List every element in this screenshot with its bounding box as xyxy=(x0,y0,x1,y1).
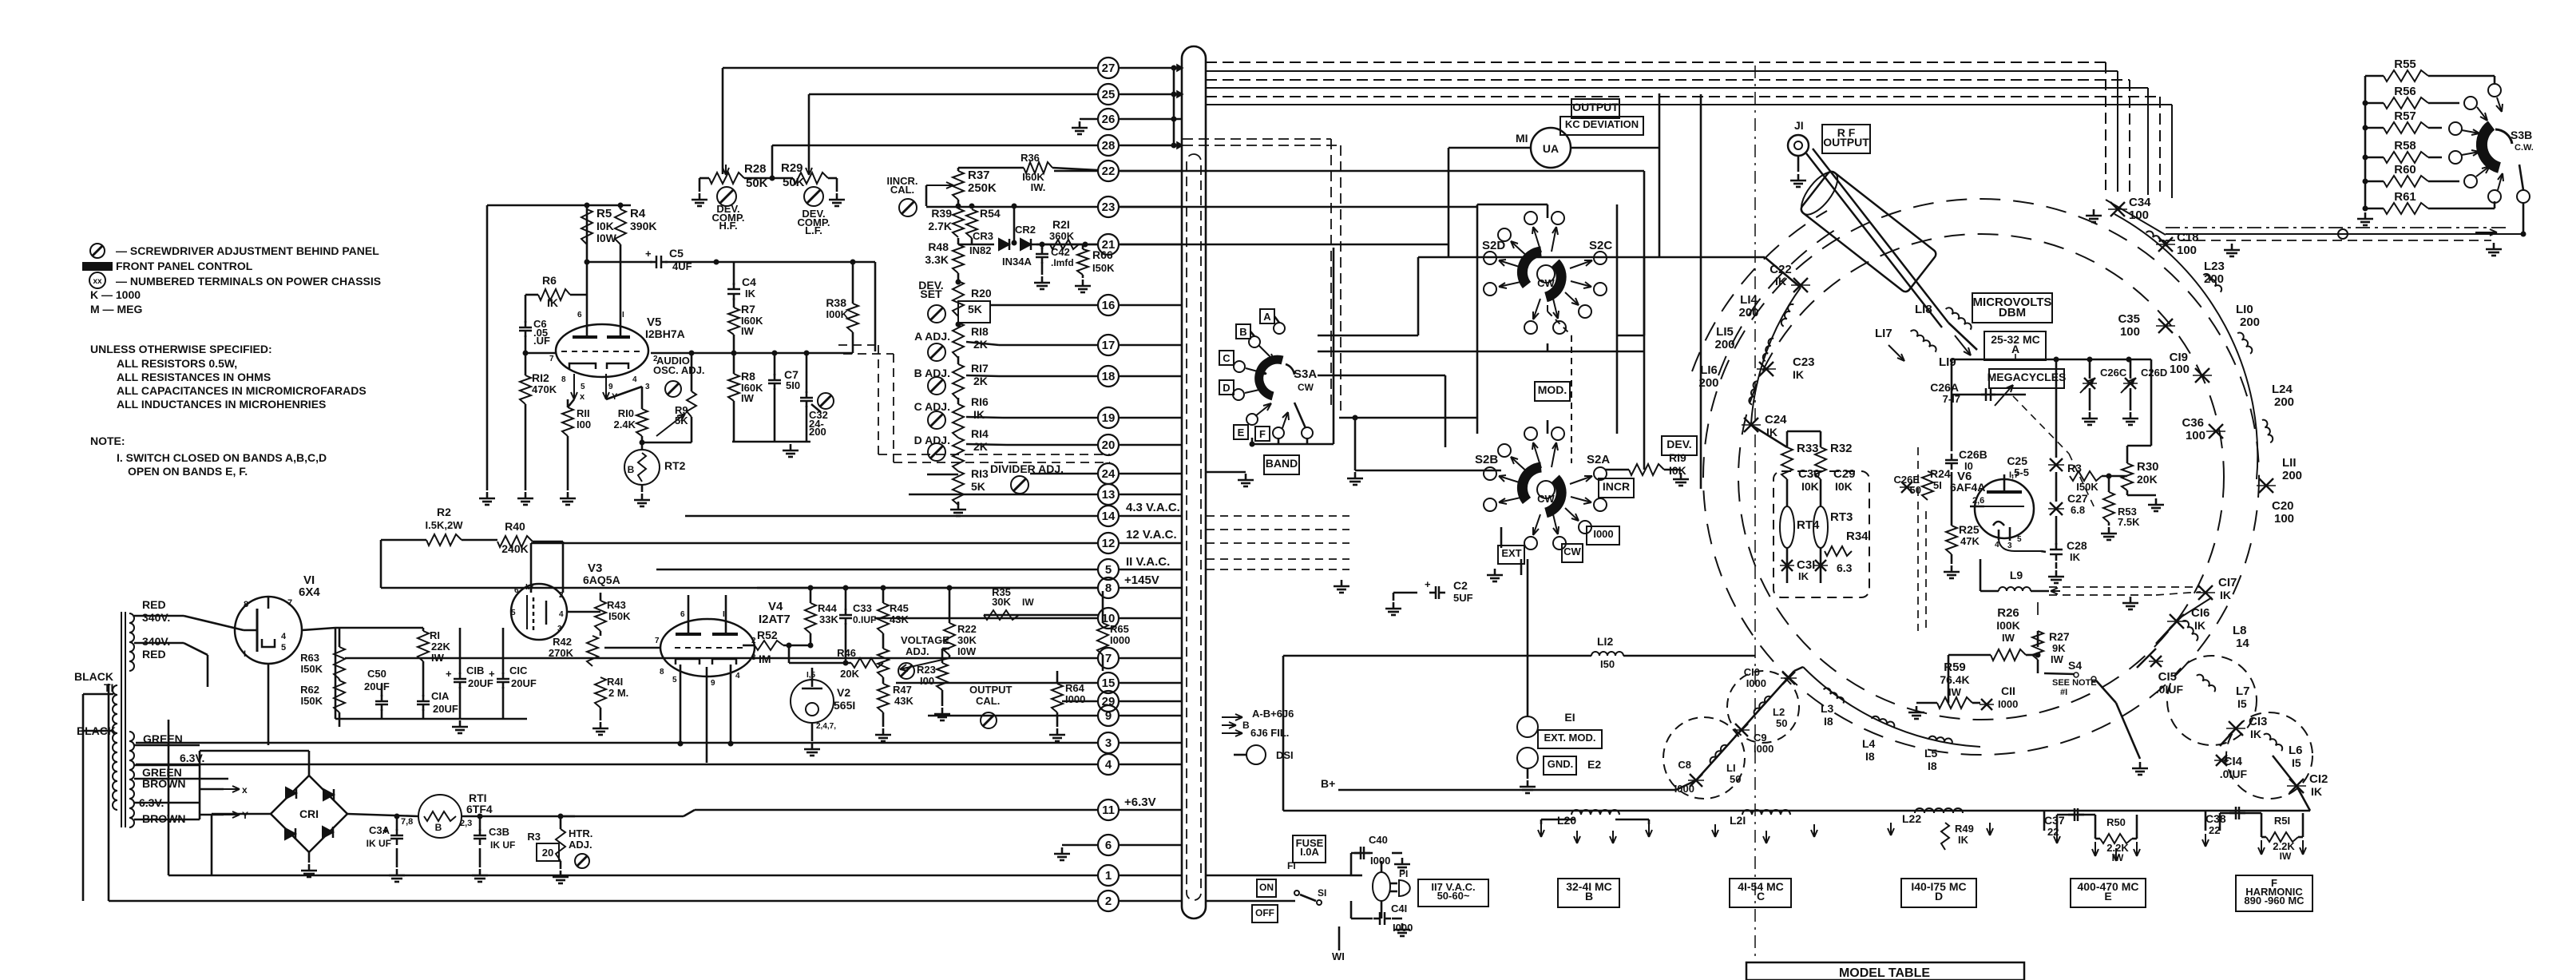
svg-text:A ADJ.: A ADJ. xyxy=(914,330,950,343)
svg-text:+: + xyxy=(446,668,452,680)
svg-text:I5: I5 xyxy=(2237,697,2247,710)
svg-text:RT2: RT2 xyxy=(664,459,686,472)
svg-text:L8: L8 xyxy=(2233,624,2247,637)
svg-text:L9: L9 xyxy=(2010,569,2023,581)
svg-text:C: C xyxy=(1757,890,1765,903)
svg-text:IM: IM xyxy=(759,653,771,665)
svg-text:UNLESS OTHERWISE SPECIFIED:: UNLESS OTHERWISE SPECIFIED: xyxy=(90,343,272,355)
svg-text:I: I xyxy=(723,610,725,619)
svg-text:6: 6 xyxy=(577,311,582,319)
svg-text:R20: R20 xyxy=(971,287,992,300)
svg-text:I50K: I50K xyxy=(608,610,631,622)
svg-text:RI8: RI8 xyxy=(971,325,989,338)
svg-text:C: C xyxy=(1223,352,1231,364)
svg-text:R5: R5 xyxy=(596,207,612,220)
svg-text:100: 100 xyxy=(2170,363,2190,376)
svg-text:L5: L5 xyxy=(1924,747,1938,760)
svg-text:200: 200 xyxy=(809,426,826,438)
svg-text:R5I: R5I xyxy=(2274,815,2290,827)
svg-text:565I: 565I xyxy=(834,699,855,712)
svg-text:C37: C37 xyxy=(2044,814,2065,827)
svg-text:IW: IW xyxy=(1948,686,1962,698)
svg-text:IK: IK xyxy=(2220,589,2231,601)
svg-text:GREEN: GREEN xyxy=(143,732,183,745)
svg-text:C33: C33 xyxy=(853,602,872,614)
svg-text:26: 26 xyxy=(1102,113,1116,126)
svg-text:19: 19 xyxy=(1102,411,1116,425)
svg-text:IK: IK xyxy=(1798,570,1809,582)
svg-text:D: D xyxy=(1935,890,1943,903)
svg-text:2: 2 xyxy=(1105,895,1112,908)
svg-text:250K: 250K xyxy=(968,181,997,195)
svg-text:S4: S4 xyxy=(2068,659,2082,672)
svg-text:25: 25 xyxy=(1102,88,1116,101)
svg-text:27: 27 xyxy=(1102,61,1116,75)
svg-text:RI6: RI6 xyxy=(971,395,989,408)
svg-text:20UF: 20UF xyxy=(433,703,458,715)
svg-text:5: 5 xyxy=(1105,563,1112,577)
svg-text:C20: C20 xyxy=(2272,499,2294,513)
svg-text:R28: R28 xyxy=(744,162,767,176)
svg-text:2.4K: 2.4K xyxy=(614,419,636,430)
svg-text:22: 22 xyxy=(2209,824,2220,836)
svg-text:C4I: C4I xyxy=(1391,903,1407,915)
svg-text:R65: R65 xyxy=(1110,623,1129,635)
svg-text:IW: IW xyxy=(2051,653,2064,665)
svg-text:13: 13 xyxy=(1102,488,1116,502)
svg-text:GND.: GND. xyxy=(1548,758,1574,770)
svg-text:C23: C23 xyxy=(1793,355,1815,369)
svg-text:R49: R49 xyxy=(1955,823,1974,835)
svg-text:100: 100 xyxy=(2120,325,2140,339)
svg-text:CAL.: CAL. xyxy=(976,695,1000,707)
svg-text:R61: R61 xyxy=(2394,190,2416,204)
svg-text:9K: 9K xyxy=(2052,642,2066,654)
svg-text:14: 14 xyxy=(1102,510,1116,523)
svg-text:18: 18 xyxy=(1102,370,1116,383)
svg-text:R50: R50 xyxy=(2106,816,2126,828)
svg-text:4UF: 4UF xyxy=(672,260,692,272)
svg-text:3: 3 xyxy=(1105,736,1112,750)
svg-text:200: 200 xyxy=(2240,315,2260,329)
svg-text:15: 15 xyxy=(1102,676,1116,690)
svg-text:R25: R25 xyxy=(1959,523,1980,536)
svg-text:890 -960 MC: 890 -960 MC xyxy=(2244,895,2305,907)
svg-text:MODEL TABLE: MODEL TABLE xyxy=(1839,966,1930,980)
svg-text:IK UF: IK UF xyxy=(490,839,515,851)
svg-text:LI2: LI2 xyxy=(1597,635,1613,648)
svg-text:R34: R34 xyxy=(1846,530,1869,543)
svg-text:C42: C42 xyxy=(1051,246,1070,258)
svg-text:IK: IK xyxy=(2250,728,2261,740)
svg-text:OUTPUT: OUTPUT xyxy=(969,684,1013,696)
svg-text:OSC. ADJ.: OSC. ADJ. xyxy=(653,364,705,376)
svg-text:RI2: RI2 xyxy=(532,371,549,384)
svg-text:4: 4 xyxy=(735,672,740,680)
svg-text:IN82: IN82 xyxy=(969,244,991,256)
svg-text:12: 12 xyxy=(1102,537,1116,550)
svg-text:2: 2 xyxy=(559,591,564,600)
svg-text:5I: 5I xyxy=(1933,479,1942,491)
svg-text:VOLTAGE: VOLTAGE xyxy=(901,634,949,646)
svg-text:R22: R22 xyxy=(957,623,977,635)
svg-text:B: B xyxy=(435,822,442,833)
svg-text:I,7: I,7 xyxy=(2009,470,2019,480)
svg-text:C3B: C3B xyxy=(489,826,509,838)
svg-text:R59: R59 xyxy=(1944,661,1966,674)
svg-text:I000: I000 xyxy=(1674,783,1694,795)
svg-text:7: 7 xyxy=(287,598,292,608)
svg-text:IW: IW xyxy=(1022,597,1034,608)
svg-text:DIVIDER ADJ.: DIVIDER ADJ. xyxy=(990,462,1064,475)
svg-text:C38: C38 xyxy=(2205,812,2226,825)
svg-text:5K: 5K xyxy=(971,480,985,493)
svg-text:3: 3 xyxy=(751,653,756,662)
svg-text:I8: I8 xyxy=(1865,750,1875,763)
svg-text:C40: C40 xyxy=(1369,834,1388,846)
svg-text:7: 7 xyxy=(1105,652,1112,665)
svg-text:270K: 270K xyxy=(549,647,574,659)
svg-text:20UF: 20UF xyxy=(511,677,537,689)
svg-text:CW: CW xyxy=(1298,382,1314,393)
svg-text:2,4,7,: 2,4,7, xyxy=(816,722,836,731)
svg-text:CI0: CI0 xyxy=(1744,666,1760,678)
svg-text:I00K: I00K xyxy=(1996,619,2020,632)
svg-text:16: 16 xyxy=(1102,299,1116,312)
svg-text:2: 2 xyxy=(751,637,756,645)
svg-text:3: 3 xyxy=(557,625,562,633)
svg-text:100: 100 xyxy=(2274,512,2294,526)
svg-text:43K: 43K xyxy=(894,695,913,707)
svg-text:R47: R47 xyxy=(893,684,912,696)
svg-text:S2B: S2B xyxy=(1475,453,1498,466)
svg-text:INCR: INCR xyxy=(1603,480,1630,493)
svg-text:KC DEVIATION: KC DEVIATION xyxy=(1565,118,1639,130)
svg-text:I: I xyxy=(244,649,246,659)
svg-text:R39: R39 xyxy=(931,207,952,220)
svg-text:2 M.: 2 M. xyxy=(608,687,628,699)
svg-text:2.7K: 2.7K xyxy=(928,220,952,232)
svg-text:LI5: LI5 xyxy=(1716,325,1734,339)
svg-text:47K: 47K xyxy=(1960,535,1980,547)
svg-text:C2: C2 xyxy=(1453,579,1468,592)
svg-text:CI2: CI2 xyxy=(2309,772,2328,786)
svg-text:IK UF: IK UF xyxy=(367,838,391,849)
svg-text:I0K: I0K xyxy=(1835,480,1853,493)
svg-text:xx: xx xyxy=(93,277,102,286)
svg-text:I000: I000 xyxy=(1746,677,1766,689)
svg-text:I.5K,2W: I.5K,2W xyxy=(426,519,464,531)
svg-text:RI4: RI4 xyxy=(971,427,989,440)
svg-text:LI7: LI7 xyxy=(1875,327,1892,340)
svg-text:SEE NOTE: SEE NOTE xyxy=(2052,678,2097,688)
svg-text:RII: RII xyxy=(577,407,590,419)
svg-text:200: 200 xyxy=(2282,469,2302,482)
svg-text:LI0: LI0 xyxy=(2236,303,2253,316)
svg-text:20K: 20K xyxy=(840,668,859,680)
svg-text:+: + xyxy=(1425,578,1431,590)
svg-text:0.IUF: 0.IUF xyxy=(853,614,876,625)
svg-text:RI7: RI7 xyxy=(971,362,989,375)
svg-text:7,8: 7,8 xyxy=(401,817,413,827)
svg-text:x: x xyxy=(580,392,585,402)
svg-text:L23: L23 xyxy=(2204,260,2225,273)
svg-text:OFF: OFF xyxy=(1255,907,1274,919)
svg-text:C36: C36 xyxy=(2182,416,2204,430)
svg-text:IK: IK xyxy=(2194,619,2205,632)
svg-text:ADJ.: ADJ. xyxy=(569,839,592,851)
svg-text:R54: R54 xyxy=(980,207,1001,220)
svg-text:I: I xyxy=(622,311,624,319)
svg-text:IK: IK xyxy=(745,288,756,300)
svg-text:I8: I8 xyxy=(1928,760,1937,772)
svg-text:I50K: I50K xyxy=(1092,262,1115,274)
svg-text:R55: R55 xyxy=(2394,58,2416,71)
svg-text:ADJ.: ADJ. xyxy=(906,645,929,657)
svg-text:I00: I00 xyxy=(577,419,591,430)
svg-text:L3: L3 xyxy=(1821,702,1834,715)
svg-text:IK: IK xyxy=(1793,368,1804,381)
svg-text:50: 50 xyxy=(1910,484,1921,496)
svg-text:I. SWITCH CLOSED ON BANDS: I. SWITCH CLOSED ON BANDS A,B,C,D xyxy=(117,451,327,464)
svg-text:RI9: RI9 xyxy=(1669,451,1686,464)
svg-text:FI: FI xyxy=(1287,860,1296,871)
svg-text:F: F xyxy=(1259,428,1266,440)
svg-text:20: 20 xyxy=(542,847,553,859)
svg-text:5: 5 xyxy=(511,609,516,617)
svg-text:2K: 2K xyxy=(973,440,988,453)
svg-text:100: 100 xyxy=(2186,429,2205,442)
svg-text:R60: R60 xyxy=(2394,163,2416,177)
svg-text:L.F.: L.F. xyxy=(805,224,822,236)
svg-text:.0IUF: .0IUF xyxy=(2156,683,2184,696)
svg-text:R63: R63 xyxy=(300,652,319,664)
svg-text:8: 8 xyxy=(1105,581,1112,595)
svg-text:I0K: I0K xyxy=(1801,480,1819,493)
svg-text:SI: SI xyxy=(1318,887,1326,899)
svg-text:C18: C18 xyxy=(2177,231,2199,244)
svg-text:100: 100 xyxy=(2177,244,2197,257)
svg-text:B: B xyxy=(1239,326,1246,338)
svg-text:5: 5 xyxy=(672,676,677,684)
svg-text:MOD.: MOD. xyxy=(1538,383,1567,396)
svg-text:C26B: C26B xyxy=(1959,448,1987,461)
svg-text:IK: IK xyxy=(973,408,985,421)
svg-text:1: 1 xyxy=(1105,869,1112,883)
svg-text:3.3K: 3.3K xyxy=(925,253,949,266)
svg-text:R52: R52 xyxy=(757,629,778,641)
svg-text:CI7: CI7 xyxy=(2218,576,2237,589)
svg-text:ALL INDUCTANCES IN MICROHE: ALL INDUCTANCES IN MICROHENRIES xyxy=(117,398,326,411)
svg-text:II V.A.C.: II V.A.C. xyxy=(1126,555,1170,569)
svg-text:C3A: C3A xyxy=(369,824,390,836)
svg-text:L4: L4 xyxy=(1862,737,1876,750)
svg-text:— SCREWDRIVER ADJUSTMENT BEH: — SCREWDRIVER ADJUSTMENT BEHIND PANEL xyxy=(116,244,379,257)
svg-text:IW: IW xyxy=(2002,632,2015,644)
svg-text:5I0: 5I0 xyxy=(786,379,800,391)
svg-text:I000: I000 xyxy=(1065,693,1085,705)
svg-text:C50: C50 xyxy=(367,668,386,680)
svg-text:IK: IK xyxy=(1775,275,1786,288)
svg-text:RED: RED xyxy=(142,598,166,611)
svg-text:7.5K: 7.5K xyxy=(2118,516,2140,528)
svg-text:IK: IK xyxy=(2070,551,2081,563)
svg-text:50: 50 xyxy=(1776,717,1787,729)
svg-text:CRI: CRI xyxy=(299,807,319,820)
svg-text:50-60~: 50-60~ xyxy=(1437,890,1470,902)
svg-text:B+: B+ xyxy=(1321,777,1335,790)
svg-text:76.4K: 76.4K xyxy=(1940,673,1969,686)
svg-text:R42: R42 xyxy=(553,636,572,648)
svg-text:CIC: CIC xyxy=(509,665,528,676)
svg-text:I0K: I0K xyxy=(596,220,614,232)
svg-text:240K: 240K xyxy=(501,542,528,555)
svg-text:MEGACYCLES: MEGACYCLES xyxy=(1987,371,2067,383)
svg-text:CII: CII xyxy=(2001,684,2015,697)
svg-text:C25: C25 xyxy=(2007,454,2027,467)
svg-text:R57: R57 xyxy=(2394,109,2416,123)
svg-text:11: 11 xyxy=(1102,803,1115,817)
svg-text:R4I: R4I xyxy=(607,676,623,688)
svg-text:A: A xyxy=(2011,343,2019,355)
svg-text:CR3: CR3 xyxy=(973,230,993,242)
svg-text:7: 7 xyxy=(655,637,660,645)
svg-text:C4: C4 xyxy=(742,276,756,288)
svg-text:R7: R7 xyxy=(741,303,755,315)
svg-text:DSI: DSI xyxy=(1276,749,1294,761)
svg-text:.Imfd: .Imfd xyxy=(1051,257,1074,268)
svg-text:.UF: .UF xyxy=(533,335,550,347)
svg-text:IN34A: IN34A xyxy=(1002,256,1032,268)
svg-text:2,6: 2,6 xyxy=(1972,496,1984,506)
svg-text:6AQ5A: 6AQ5A xyxy=(583,573,620,586)
svg-text:C30: C30 xyxy=(1798,467,1821,481)
svg-text:CW: CW xyxy=(1563,546,1581,557)
svg-text:33K: 33K xyxy=(819,613,838,625)
svg-text:R27: R27 xyxy=(2049,630,2070,643)
svg-text:E: E xyxy=(2104,890,2111,903)
svg-text:17: 17 xyxy=(1102,339,1116,352)
svg-text:R6: R6 xyxy=(542,274,557,287)
svg-text:B: B xyxy=(628,464,635,475)
svg-text:I50K: I50K xyxy=(301,663,323,675)
svg-text:30K: 30K xyxy=(992,596,1011,608)
svg-text:EXT. MOD.: EXT. MOD. xyxy=(1544,732,1595,744)
svg-text:I00K: I00K xyxy=(826,308,849,320)
svg-text:ALL CAPACITANCES IN MICROMI: ALL CAPACITANCES IN MICROMICROFARADS xyxy=(117,384,367,397)
svg-text:I.7: I.7 xyxy=(525,583,535,592)
svg-text:LI9: LI9 xyxy=(1939,355,1956,369)
svg-text:I8: I8 xyxy=(1824,715,1833,728)
svg-text:RI0: RI0 xyxy=(618,407,634,419)
svg-text:R45: R45 xyxy=(890,602,909,614)
svg-text:MI: MI xyxy=(1516,132,1528,145)
svg-text:S3B: S3B xyxy=(2511,129,2532,141)
svg-text:C.W.: C.W. xyxy=(2515,143,2534,153)
svg-text:M — MEG: M — MEG xyxy=(90,303,142,315)
svg-text:R64: R64 xyxy=(1065,682,1085,694)
svg-text:7: 7 xyxy=(549,355,554,363)
svg-text:9: 9 xyxy=(1105,709,1112,723)
svg-text:R66: R66 xyxy=(1092,248,1113,261)
svg-text:20K: 20K xyxy=(2137,473,2158,486)
svg-text:R2I: R2I xyxy=(1052,218,1070,231)
svg-text:BAND: BAND xyxy=(1266,457,1298,470)
svg-text:L6: L6 xyxy=(2289,744,2303,757)
svg-text:R58: R58 xyxy=(2394,139,2416,153)
svg-text:B: B xyxy=(1585,890,1593,903)
svg-text:EI: EI xyxy=(1564,711,1575,724)
svg-text:V4: V4 xyxy=(768,600,783,613)
svg-text:CR2: CR2 xyxy=(1015,224,1036,236)
svg-text:I000: I000 xyxy=(1998,698,2018,710)
svg-text:I,5: I,5 xyxy=(806,671,816,680)
svg-text:S2C: S2C xyxy=(1589,239,1612,252)
svg-text:28: 28 xyxy=(1102,139,1116,153)
svg-text:5K: 5K xyxy=(968,303,982,315)
svg-text:R33: R33 xyxy=(1797,442,1819,455)
svg-text:IW: IW xyxy=(741,325,755,337)
svg-text:6.8: 6.8 xyxy=(2071,504,2085,516)
svg-text:L2: L2 xyxy=(1773,706,1785,718)
svg-text:30K: 30K xyxy=(957,634,977,646)
svg-text:I000: I000 xyxy=(1754,743,1773,755)
svg-text:R62: R62 xyxy=(300,684,319,696)
svg-text:+: + xyxy=(489,668,495,680)
svg-text:20UF: 20UF xyxy=(364,680,390,692)
svg-text:C34: C34 xyxy=(2129,196,2151,209)
svg-text:4: 4 xyxy=(559,610,564,619)
svg-text:CI5: CI5 xyxy=(2158,670,2177,684)
svg-text:I000: I000 xyxy=(1370,855,1390,867)
svg-text:50: 50 xyxy=(1730,773,1741,785)
svg-text:5: 5 xyxy=(2017,535,2022,544)
svg-text:#I: #I xyxy=(2060,688,2067,697)
svg-text:IW: IW xyxy=(2280,851,2292,862)
svg-text:UA: UA xyxy=(1543,142,1559,155)
svg-text:R26: R26 xyxy=(1997,606,2019,620)
svg-text:R30: R30 xyxy=(2137,460,2159,474)
svg-text:IW.: IW. xyxy=(1031,181,1046,193)
svg-text:23: 23 xyxy=(1102,200,1116,214)
svg-text:12 V.A.C.: 12 V.A.C. xyxy=(1126,528,1177,542)
svg-text:R36: R36 xyxy=(1020,152,1040,164)
svg-text:NOTE:: NOTE: xyxy=(90,434,125,447)
svg-text:I00: I00 xyxy=(920,675,934,687)
svg-text:20: 20 xyxy=(1102,438,1116,452)
svg-text:I0W: I0W xyxy=(596,232,617,244)
svg-text:+: + xyxy=(645,248,652,260)
svg-text:A-B+6J6: A-B+6J6 xyxy=(1252,708,1294,720)
svg-text:I2AT7: I2AT7 xyxy=(759,613,791,626)
svg-text:4: 4 xyxy=(632,375,637,384)
svg-text:S2A: S2A xyxy=(1587,453,1610,466)
svg-text:4: 4 xyxy=(281,632,287,641)
svg-text:6.3: 6.3 xyxy=(1837,561,1853,574)
svg-text:6X4: 6X4 xyxy=(299,585,320,599)
svg-text:6: 6 xyxy=(514,586,519,595)
svg-text:C ADJ.: C ADJ. xyxy=(914,400,950,413)
svg-text:C26C: C26C xyxy=(2100,367,2127,379)
svg-text:+6.3V: +6.3V xyxy=(1124,796,1156,809)
svg-text:IK: IK xyxy=(1958,834,1969,846)
svg-text:9: 9 xyxy=(608,383,613,391)
svg-text:R8: R8 xyxy=(741,370,755,383)
svg-text:6.3V.: 6.3V. xyxy=(180,752,204,764)
svg-text:E: E xyxy=(1238,427,1245,438)
svg-text:340V.: 340V. xyxy=(142,635,170,648)
svg-text:LI: LI xyxy=(1726,762,1736,774)
